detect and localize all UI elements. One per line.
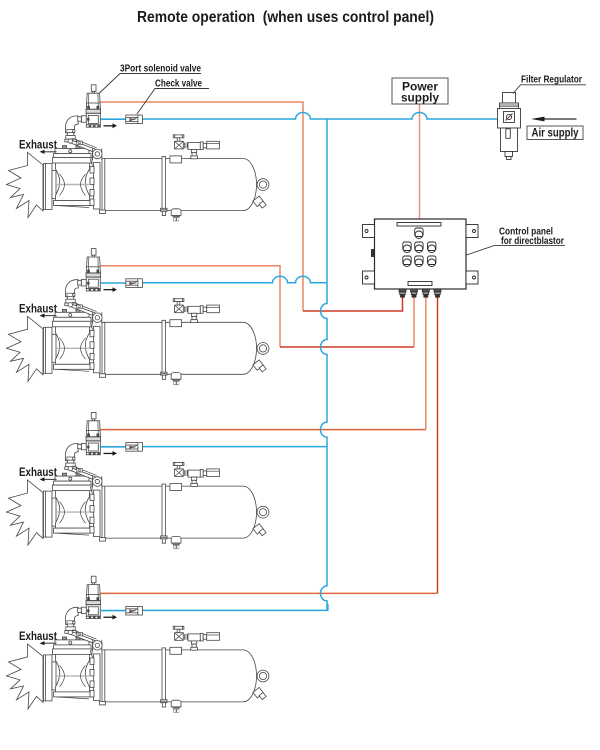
svg-text:supply: supply <box>401 93 440 105</box>
label: control panel for directblastor <box>467 226 566 256</box>
air line: main vertical drop <box>321 119 328 610</box>
air line: check valve 1 to filter regulator <box>143 113 498 119</box>
control panel mounting tabs <box>363 225 479 285</box>
air supply box <box>527 126 583 140</box>
wire: solenoid 2 to terminal 2 <box>100 266 280 347</box>
directblastor unit 1 <box>7 85 269 221</box>
control panel terminals <box>399 289 441 297</box>
air supply arrow <box>531 117 577 122</box>
directblastor unit 3 <box>7 412 269 548</box>
wire: solenoid 4 to terminal 4 <box>100 592 437 594</box>
svg-text:Filter Regulator: Filter Regulator <box>521 74 582 86</box>
svg-text:Remote operation (when uses c: Remote operation (when uses control pane… <box>137 9 434 26</box>
label: filter regulator <box>513 74 586 94</box>
air line: branch to unit 2 <box>143 276 328 283</box>
air line: branch to unit 4 <box>143 604 328 610</box>
label: 3Port solenoid valve <box>100 63 202 94</box>
label: check valve <box>137 78 209 115</box>
directblastor unit 4 <box>7 576 269 712</box>
control panel box <box>375 219 467 289</box>
wire: power supply to control panel <box>419 104 421 219</box>
filter regulator <box>498 93 521 160</box>
wire: solenoid 1 to terminal 1 <box>100 102 303 311</box>
air line: branch to unit 3 <box>143 446 328 448</box>
power supply box <box>392 78 448 105</box>
directblastor unit 2 <box>7 249 269 385</box>
control panel buttons <box>403 228 436 267</box>
svg-text:Air supply: Air supply <box>532 126 579 140</box>
svg-text:3Port solenoid valve: 3Port solenoid valve <box>120 63 201 75</box>
wire: solenoid 3 to terminal 3 <box>100 429 425 431</box>
svg-text:Check valve: Check valve <box>155 78 202 90</box>
